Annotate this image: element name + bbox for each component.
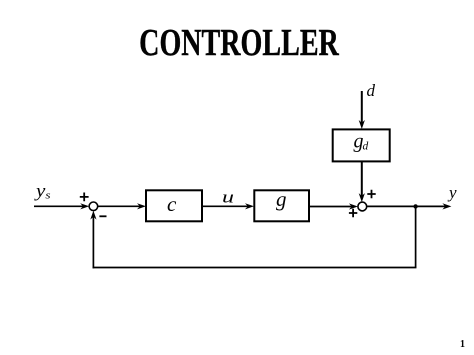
arrowhead at output y [442, 203, 451, 209]
plus sign at S2 top input [367, 190, 375, 198]
svg-text:u: u [222, 188, 234, 207]
wire d to block gd [361, 91, 363, 125]
plus sign at S2 left input [349, 209, 357, 217]
feedback wire up into S1 [92, 215, 94, 269]
wire c to g [202, 205, 250, 207]
block gd box [333, 129, 390, 161]
arrowhead from gd into S2 [359, 193, 365, 202]
arrowhead into block gd [359, 120, 365, 129]
svg-text:ys: ys [34, 181, 51, 202]
wire gd to S2 [361, 161, 363, 198]
wire g to summing junction S2 [309, 206, 354, 208]
junction dot on output line [413, 204, 417, 208]
wire S1 to block c [98, 205, 143, 207]
feedback wire down from junction [415, 206, 417, 267]
arrowhead into block g [245, 203, 254, 209]
svg-text:g: g [276, 187, 287, 211]
summing junction S1 [89, 202, 98, 211]
plus sign at S1 input [80, 193, 89, 202]
block g box [254, 190, 309, 221]
arrowhead into block c [137, 203, 146, 209]
minus sign at S1 feedback input [99, 215, 106, 217]
wire S2 to output y [367, 205, 448, 207]
arrowhead into S1 [80, 203, 89, 209]
svg-text:c: c [167, 192, 177, 216]
svg-text:y: y [447, 183, 457, 202]
svg-text:1: 1 [460, 339, 465, 350]
arrowhead feedback into S1 bottom [90, 211, 96, 220]
svg-text:d: d [367, 81, 376, 100]
summing junction S2 [358, 202, 367, 211]
feedback wire bottom [93, 267, 417, 269]
wire ys to summing junction S1 [34, 205, 86, 207]
title CONTROLLER [66, 21, 412, 65]
block c box [146, 190, 202, 221]
arrowhead into S2 [349, 203, 358, 209]
